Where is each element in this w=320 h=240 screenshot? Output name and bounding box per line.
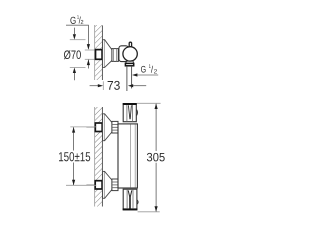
top knob	[123, 104, 137, 122]
top knob side bulge	[136, 110, 139, 116]
union nut (top view)	[112, 49, 119, 62]
mixer bar body	[118, 124, 137, 188]
dimension G1/2 leader arrows (at x=88.2)	[87, 25, 90, 68]
bottom union: escutcheon	[103, 171, 112, 198]
dimension 305	[137, 103, 165, 212]
top union: pipe stub	[86, 126, 95, 128]
bottom handle	[123, 189, 138, 210]
stem on top of valve	[129, 42, 131, 47]
valve body (top view)	[119, 46, 128, 62]
label G 1/2 (right of pipe)	[132, 64, 158, 76]
wall fitting square (top view)	[85, 50, 102, 60]
connector ring (top view)	[118, 50, 121, 60]
wall hatch (front view)	[95, 107, 103, 207]
bottom union: pipe stub	[86, 184, 95, 186]
wall hatch (top view)	[95, 25, 103, 80]
dimension 150±15	[59, 127, 96, 185]
bottom union: nut	[112, 179, 118, 191]
top union: nut	[112, 121, 118, 133]
dimension 73	[90, 81, 147, 90]
outlet flare under circle	[126, 61, 134, 63]
bottom handle side bulge	[137, 200, 138, 204]
dimension Ø70	[64, 28, 86, 81]
outlet nut dark band	[125, 63, 133, 65]
label G 1/2 (top-left)	[66, 15, 89, 25]
top union: wall fitting square	[95, 123, 102, 132]
outlet pipe (top view)	[127, 66, 132, 91]
valve knob circle (top view)	[123, 47, 137, 61]
escutcheon cone (top view)	[103, 40, 112, 68]
bottom union: wall fitting square	[95, 181, 102, 189]
top union: escutcheon	[103, 114, 112, 141]
